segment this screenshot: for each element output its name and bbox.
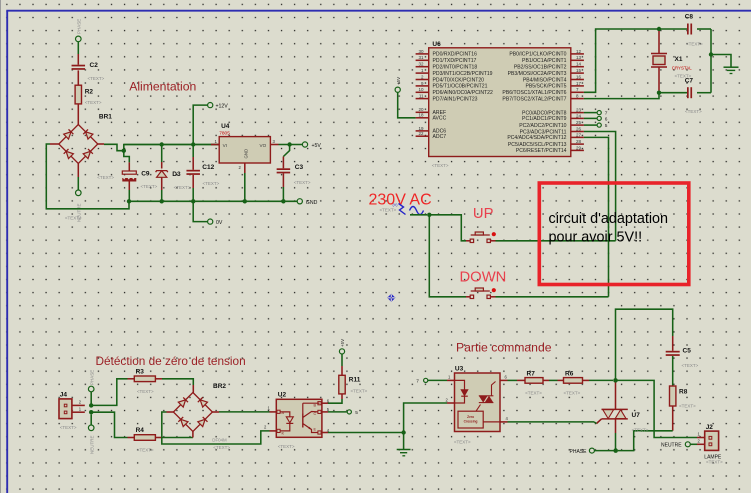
pin 14 PB2	[514, 62, 584, 71]
wire	[124, 145, 219, 151]
terminal PHASE (J4)	[88, 370, 94, 392]
svg-text:<TEXT>: <TEXT>	[85, 100, 102, 105]
svg-text:<TEXT>: <TEXT>	[686, 42, 703, 47]
wire	[192, 432, 194, 438]
wire (R11 to U2 B)	[321, 394, 342, 403]
pin 11 PD7	[416, 94, 478, 103]
node	[160, 199, 164, 203]
ground (U2 emitter)	[397, 450, 411, 456]
wire	[697, 28, 711, 30]
svg-text:<TEXT>: <TEXT>	[454, 440, 471, 445]
node	[127, 199, 131, 203]
wire	[543, 379, 564, 381]
svg-text:PHASE: PHASE	[77, 19, 82, 34]
wire	[711, 55, 731, 67]
pin 30 PD0	[416, 49, 478, 58]
optocoupler U2 body	[276, 392, 322, 450]
svg-text:<TEXT>: <TEXT>	[632, 428, 649, 433]
svg-text:7805: 7805	[219, 130, 230, 136]
svg-text:J4: J4	[60, 391, 68, 398]
wire (U2 E to gnd)	[321, 432, 401, 434]
wire (0V tap)	[193, 201, 207, 221]
wire	[428, 379, 455, 381]
svg-text:C7: C7	[685, 78, 694, 85]
svg-text:PC1/ADC1/PCINT9: PC1/ADC1/PCINT9	[522, 116, 567, 122]
svg-text:<TEXT>: <TEXT>	[564, 391, 581, 396]
svg-text:R11: R11	[349, 377, 361, 384]
pin 18 AVCC	[416, 113, 447, 122]
svg-text:PC5/ADC5/SCL/PCINT13: PC5/ADC5/SCL/PCINT13	[508, 142, 567, 148]
U3 zero crossing unit	[458, 405, 500, 429]
node (C9 tap)	[122, 149, 126, 153]
pin 20 AREF	[416, 107, 446, 116]
svg-text:CRYSTAL: CRYSTAL	[672, 65, 692, 70]
svg-text:+5V: +5V	[312, 143, 322, 149]
terminal +5V (AVCC)	[395, 77, 401, 92]
svg-text:25: 25	[576, 120, 582, 125]
svg-text:7: 7	[605, 111, 608, 117]
node	[89, 410, 93, 414]
terminal GND	[297, 199, 317, 206]
capacitor C7	[685, 78, 702, 115]
AC source symbol	[380, 203, 424, 215]
wire (+5V out)	[290, 144, 303, 146]
pin 1	[448, 375, 451, 380]
svg-text:7: 7	[416, 378, 419, 384]
pin 7 PB6	[502, 87, 583, 96]
svg-text:16: 16	[576, 74, 582, 79]
push button DOWN	[470, 288, 496, 299]
pin 8 PB7	[502, 94, 583, 103]
pin 1 PD3	[416, 68, 493, 77]
svg-text:DF04M: DF04M	[212, 438, 227, 443]
terminal NEUTRE (J2)	[661, 442, 690, 449]
svg-text:<TEXT>: <TEXT>	[213, 445, 230, 450]
pin 9 PD5	[416, 81, 488, 90]
node	[89, 403, 93, 407]
terminal node 7	[597, 111, 608, 117]
svg-text:31: 31	[418, 55, 424, 60]
wire	[192, 175, 194, 201]
section title Detection de zero de tension	[96, 354, 246, 368]
node (triac gate rail)	[613, 378, 618, 383]
svg-text:Détéction de zéro de tension: Détéction de zéro de tension	[96, 354, 246, 368]
svg-text:(V): (V)	[393, 203, 399, 207]
svg-text:18: 18	[418, 113, 424, 118]
pin 15 PB3	[508, 68, 584, 77]
annotation text	[549, 211, 669, 246]
wire	[594, 450, 613, 452]
node	[657, 91, 661, 95]
svg-text:<TEXT>: <TEXT>	[706, 460, 723, 465]
svg-text:C9: C9	[141, 171, 150, 178]
svg-text:0V: 0V	[216, 220, 223, 226]
wire (phase to R3)	[91, 379, 134, 406]
svg-text:+5V: +5V	[340, 339, 345, 347]
wire	[672, 356, 674, 386]
terminal +5V	[302, 142, 321, 149]
svg-text:PB0/ICP1/CLKO/PCINT0: PB0/ICP1/CLKO/PCINT0	[509, 52, 566, 58]
svg-text:Partie commande: Partie commande	[456, 341, 552, 355]
svg-text:PD1/TXD/PCINT17: PD1/TXD/PCINT17	[433, 58, 477, 64]
svg-text:BR2: BR2	[213, 383, 226, 390]
wire (U2 C out)	[321, 411, 347, 413]
regulator U4 7805	[215, 123, 276, 170]
pin 12 PB0	[509, 49, 584, 58]
terminal 0V	[208, 219, 223, 226]
capacitor C8	[685, 14, 703, 47]
terminal node (zero cross out)	[347, 410, 358, 416]
wire (GND rail)	[129, 200, 297, 202]
svg-text:13: 13	[576, 55, 582, 60]
svg-text:pour avoir 5V!!: pour avoir 5V!!	[549, 229, 643, 245]
capacitor C5	[666, 348, 699, 369]
svg-text:R2: R2	[85, 89, 94, 96]
pin 5 C	[314, 407, 330, 416]
bridge rectifier BR2	[173, 383, 230, 450]
wire	[77, 42, 79, 65]
label DOWN	[460, 270, 507, 286]
capacitor C12	[186, 164, 219, 186]
wire (PC2 to node 5)	[584, 124, 597, 126]
wire	[282, 173, 284, 201]
svg-text:PD3/INT1/OC2B/PCINT19: PD3/INT1/OC2B/PCINT19	[433, 71, 493, 77]
svg-text:20: 20	[418, 107, 424, 112]
wire	[90, 392, 92, 406]
wire (PC3 to UP)	[584, 132, 616, 241]
resistor R11	[339, 375, 368, 394]
svg-text:R4: R4	[136, 427, 145, 434]
svg-text:NEUTRE: NEUTRE	[77, 203, 82, 222]
svg-text:12: 12	[576, 49, 582, 54]
wire (VI rail)	[124, 144, 219, 146]
pin 10 PD6	[416, 87, 493, 96]
svg-text:<TEXT>: <TEXT>	[88, 76, 105, 81]
svg-text:29: 29	[576, 145, 582, 150]
wire	[77, 104, 79, 125]
svg-text:<TEXT>: <TEXT>	[432, 163, 449, 168]
pin 2 PD4	[416, 74, 485, 83]
svg-text:C12: C12	[202, 164, 214, 171]
svg-text:PD0/RXD/PCINT16: PD0/RXD/PCINT16	[433, 52, 478, 58]
triac U7	[597, 383, 649, 433]
capacitor C2	[72, 62, 105, 81]
annotation box (red)	[539, 183, 689, 285]
svg-text:15: 15	[576, 68, 582, 73]
svg-text:circuit d'adaptation: circuit d'adaptation	[549, 211, 669, 227]
ground (crystal)	[724, 67, 739, 73]
window left edge	[0, 0, 2, 493]
pin 22 ADC7	[416, 131, 447, 140]
svg-text:<TEXT>: <TEXT>	[137, 448, 154, 453]
svg-text:X1: X1	[675, 56, 683, 63]
svg-text:5: 5	[355, 410, 358, 416]
section title Alimentation	[129, 80, 196, 94]
pin 17 PB5	[525, 81, 583, 90]
svg-text:U7: U7	[632, 412, 641, 419]
wire	[77, 164, 79, 191]
svg-text:PB2/SS/OC1B/PCINT2: PB2/SS/OC1B/PCINT2	[514, 65, 567, 71]
wire (BR2- loop to U2 K)	[162, 412, 276, 444]
svg-text:GND: GND	[306, 200, 318, 206]
wire	[192, 145, 194, 170]
svg-text:<TEXT>: <TEXT>	[203, 181, 220, 186]
svg-text:<TEXT>: <TEXT>	[525, 391, 542, 396]
wire (UP to PC3)	[491, 240, 616, 242]
wire (AVCC feed)	[398, 92, 416, 118]
wire	[508, 379, 526, 381]
wire	[697, 29, 711, 93]
pin 23 PC0	[522, 108, 584, 117]
svg-text:PC2/ADC2/PCINT10: PC2/ADC2/PCINT10	[519, 123, 566, 129]
wire	[155, 437, 193, 439]
wire (XTAL1)	[584, 29, 687, 92]
wire	[90, 414, 92, 425]
node (AC feed)	[427, 213, 431, 217]
wire	[403, 433, 405, 450]
svg-text:C3: C3	[295, 164, 304, 171]
svg-text:Crossing: Crossing	[464, 420, 478, 424]
svg-text:24: 24	[576, 113, 582, 118]
zener diode D3	[156, 171, 191, 190]
svg-text:ADC7: ADC7	[433, 134, 447, 140]
wire (MT1)	[615, 419, 617, 449]
wire (gate)	[508, 422, 597, 424]
svg-text:U2: U2	[278, 392, 287, 399]
svg-text:30: 30	[418, 49, 424, 54]
svg-text:27: 27	[576, 132, 582, 137]
svg-text:6: 6	[605, 116, 608, 122]
pin 31 PD1	[416, 55, 477, 64]
wire (C9 jog)	[124, 151, 130, 171]
wire (left return loop)	[46, 144, 129, 209]
svg-text:R3: R3	[136, 369, 145, 376]
svg-text:<TEXT>: <TEXT>	[685, 109, 702, 114]
svg-text:PB5/SCK/PCINT5: PB5/SCK/PCINT5	[525, 84, 566, 90]
svg-text:26: 26	[576, 126, 582, 131]
crystal X1	[651, 31, 692, 91]
terminal PHASE (triac)	[570, 448, 595, 455]
svg-text:<TEXT>: <TEXT>	[141, 184, 158, 189]
svg-text:22: 22	[418, 131, 424, 136]
pin 28 PC5	[508, 139, 584, 148]
wire	[659, 92, 687, 94]
node	[657, 27, 661, 31]
svg-text:230V AC: 230V AC	[369, 192, 432, 209]
resistor R2	[75, 85, 102, 105]
resistor R4	[134, 427, 155, 452]
pin	[270, 144, 289, 146]
wire (snubber top)	[616, 309, 673, 380]
resistor R6	[564, 371, 583, 396]
svg-text:R8: R8	[679, 389, 688, 396]
svg-text:5: 5	[605, 123, 608, 129]
node	[709, 52, 713, 56]
U2 internal LED	[280, 412, 293, 431]
bridge rectifier BR1	[59, 113, 115, 220]
pin 6 B	[314, 399, 330, 408]
svg-text:28: 28	[576, 139, 582, 144]
pin 2	[446, 397, 449, 402]
wire (neutre to R4)	[91, 412, 134, 437]
wire (to U3 pin2)	[404, 403, 455, 433]
svg-text:NEUTRE: NEUTRE	[89, 435, 94, 454]
wire (MT2 to J2)	[616, 380, 705, 437]
terminal +5V (R11)	[339, 339, 345, 354]
svg-text:U4: U4	[221, 123, 230, 130]
svg-text:U3: U3	[455, 366, 464, 373]
wire	[341, 354, 343, 375]
pin 1 A	[268, 406, 285, 415]
wire	[583, 379, 614, 381]
node	[160, 142, 164, 146]
resistor R3	[134, 369, 155, 395]
wire	[161, 145, 163, 169]
wire	[77, 70, 79, 85]
svg-text:PB7/TOSC2/XTAL2/PCINT7: PB7/TOSC2/XTAL2/PCINT7	[502, 96, 566, 102]
svg-text:PD4/T0/XCK/PCINT20: PD4/T0/XCK/PCINT20	[433, 77, 485, 83]
pin 1	[72, 407, 85, 413]
pin 19 ADC6	[416, 126, 447, 135]
IC U6 ATmega328P body	[429, 41, 571, 168]
wire (PC1 to node 6)	[584, 117, 597, 119]
svg-text:AVCC: AVCC	[433, 116, 447, 122]
connector J2	[704, 424, 723, 465]
svg-text:Zero: Zero	[467, 415, 474, 419]
svg-text:C: C	[314, 412, 317, 416]
pin 1 (J2)	[698, 432, 701, 437]
svg-text:<TEXT>: <TEXT>	[682, 363, 699, 368]
wire	[690, 443, 704, 445]
svg-text:DOWN: DOWN	[460, 270, 507, 286]
wire (to DOWN)	[429, 215, 470, 297]
svg-text:14: 14	[576, 62, 582, 67]
pin 16 PB4	[523, 74, 584, 83]
U3 internal triac	[479, 382, 496, 403]
push button UP	[470, 232, 496, 243]
svg-text:23: 23	[576, 108, 582, 113]
svg-text:R6: R6	[565, 371, 574, 378]
svg-text:<TEXT>: <TEXT>	[137, 389, 154, 394]
capacitor C9 (polarised)	[122, 171, 157, 190]
svg-text:C8: C8	[685, 14, 694, 21]
pin 32 PD2	[416, 62, 478, 71]
svg-text:PD2/INT0/PCINT18: PD2/INT0/PCINT18	[433, 65, 478, 71]
node	[281, 199, 285, 203]
wire (+12V tap)	[193, 105, 207, 144]
svg-text:D3: D3	[172, 171, 181, 178]
wire (R8 to MT1)	[618, 406, 673, 451]
wire (DOWN to PC4)	[491, 296, 609, 298]
terminal PHASE (top input)	[76, 19, 82, 42]
terminal node 6	[597, 116, 608, 122]
pin 29 PC6	[516, 145, 584, 154]
label UP	[473, 206, 494, 222]
svg-text:<TEXT>: <TEXT>	[174, 185, 191, 190]
svg-text:32: 32	[418, 62, 424, 67]
svg-text:17: 17	[576, 81, 582, 86]
svg-text:R7: R7	[527, 371, 536, 378]
optotriac U3 MOC3021 body	[454, 366, 500, 445]
wire (XTAL2)	[584, 93, 659, 99]
U3 internal LED	[455, 380, 468, 403]
wire (PC4 to DOWN)	[584, 137, 609, 296]
U2 internal phototransistor	[303, 403, 320, 432]
svg-text:J2: J2	[706, 424, 714, 431]
origin marker (blue diamond)	[387, 294, 395, 302]
connector J4	[59, 391, 77, 430]
pin 13 PB1	[522, 55, 584, 64]
node	[191, 142, 195, 146]
wire	[128, 182, 130, 202]
svg-text:Alimentation: Alimentation	[129, 80, 196, 94]
node	[613, 448, 618, 453]
section title Partie commande	[456, 341, 552, 355]
svg-text:<TEXT>: <TEXT>	[294, 180, 311, 185]
terminal NEUTRE (below BR1)	[76, 190, 82, 222]
pin 24 PC1	[522, 113, 584, 122]
wire	[283, 146, 289, 168]
svg-text:PB6/TOSC1/XTAL1/PCINT6: PB6/TOSC1/XTAL1/PCINT6	[502, 90, 566, 96]
svg-text:GND: GND	[244, 149, 249, 159]
svg-text:C2: C2	[90, 62, 99, 69]
wire (BR2+ to U2 A)	[212, 411, 276, 413]
capacitor C3	[277, 164, 311, 185]
svg-text:BR1: BR1	[99, 113, 112, 120]
node	[401, 430, 405, 434]
svg-text:UP: UP	[473, 206, 494, 222]
terminal NEUTRE (J4)	[88, 425, 94, 454]
resistor R8	[670, 386, 697, 409]
pin 2	[72, 400, 85, 406]
svg-text:19: 19	[418, 126, 424, 131]
svg-text:PD6/AIN0/OC0A/PCINT22: PD6/AIN0/OC0A/PCINT22	[433, 90, 493, 96]
pin	[211, 144, 219, 146]
svg-text:NEUTRE: NEUTRE	[661, 443, 682, 449]
svg-text:VO: VO	[260, 143, 267, 148]
wire	[155, 379, 193, 393]
terminal node 5	[597, 123, 608, 129]
svg-text:C5: C5	[683, 348, 692, 355]
svg-text:<TEXT>: <TEXT>	[679, 404, 696, 409]
svg-text:<TEXT>: <TEXT>	[351, 389, 368, 394]
svg-text:PB4/MISO/PCINT4: PB4/MISO/PCINT4	[523, 77, 567, 83]
svg-text:PC4/ADC4/SDA/PCINT12: PC4/ADC4/SDA/PCINT12	[507, 135, 566, 141]
svg-text:<TEXT>: <TEXT>	[380, 208, 397, 213]
svg-text:PD7/AIN1/PCINT23: PD7/AIN1/PCINT23	[433, 96, 478, 102]
terminal node (U3 drive)	[416, 378, 428, 384]
svg-text:PC6/RESET/PCINT14: PC6/RESET/PCINT14	[516, 148, 567, 154]
pin	[244, 163, 246, 201]
label 230V AC	[369, 192, 432, 209]
pin 2 (J2)	[698, 439, 701, 444]
node	[243, 199, 247, 203]
pin 27 PC4	[507, 132, 584, 141]
svg-text:10: 10	[418, 87, 424, 92]
svg-text:PB1/OC1A/PCINT1: PB1/OC1A/PCINT1	[522, 58, 567, 64]
svg-text:<TEXT>: <TEXT>	[60, 425, 77, 430]
terminal +12V	[208, 103, 229, 110]
pin 4 E	[314, 427, 330, 434]
wire (PC0 to node 7)	[584, 112, 597, 114]
svg-text:PHASE: PHASE	[570, 449, 588, 455]
svg-text:U6: U6	[432, 41, 441, 48]
pin 6	[500, 375, 508, 381]
wire	[410, 214, 427, 216]
svg-text:11: 11	[419, 94, 424, 99]
pin 2 K	[264, 425, 285, 436]
svg-text:VI: VI	[223, 143, 227, 148]
